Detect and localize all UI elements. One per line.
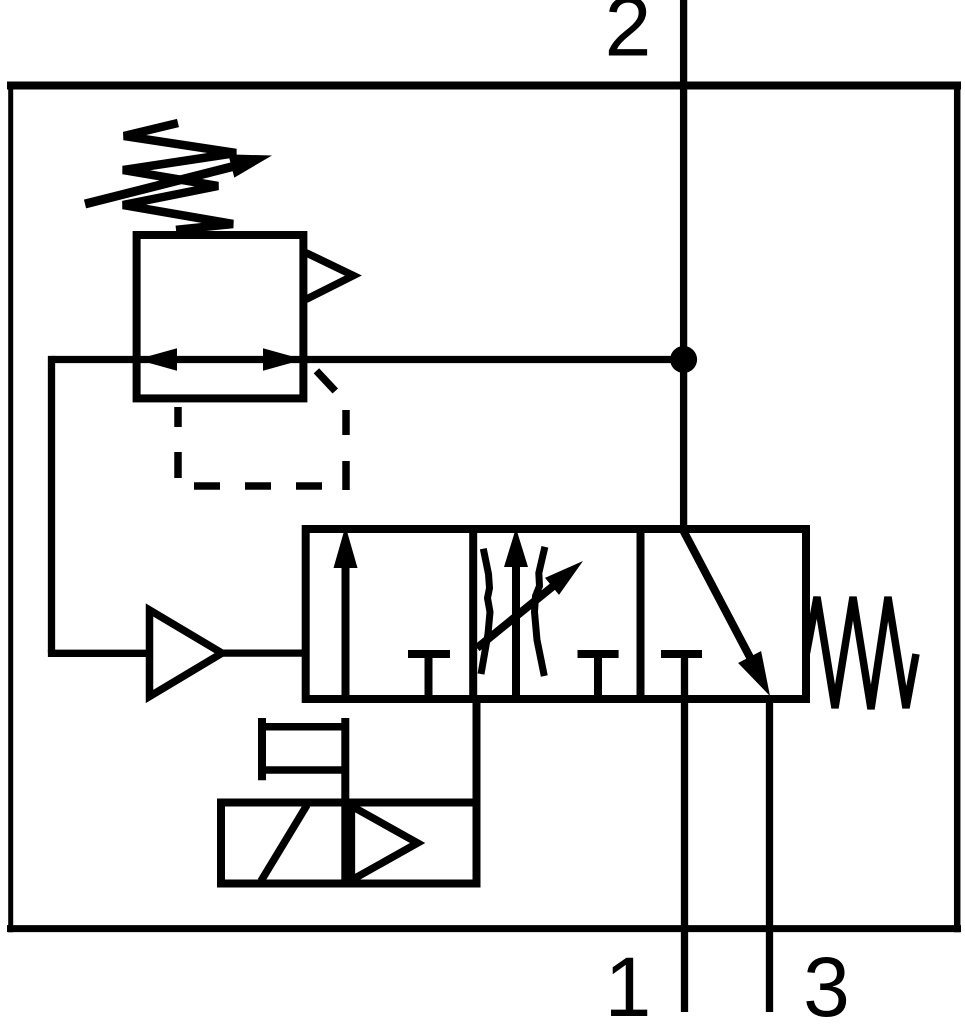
- solenoid diagonal: [261, 805, 307, 881]
- solenoid box: [221, 803, 477, 884]
- regulator right arrowhead: [263, 348, 303, 370]
- wire main horizontal to junction: [52, 356, 684, 363]
- wire port 2 vertical: [680, 0, 687, 529]
- manual override button: [258, 718, 345, 780]
- valve divider 2: [637, 529, 645, 699]
- wire port 3: [766, 695, 773, 1012]
- cell3 blocked port bar: [661, 650, 702, 658]
- regulator pilot dashed line: [178, 371, 346, 490]
- cell2 adjustment arrow: [477, 561, 583, 648]
- svg-text:1: 1: [605, 940, 652, 1024]
- wire amplifier to valve: [222, 649, 306, 656]
- valve body: [306, 529, 806, 699]
- cell2 flow arrow: [504, 528, 528, 699]
- wire pilot down from valve: [473, 695, 481, 884]
- wire port 1: [681, 654, 688, 1012]
- valve divider 1: [469, 529, 477, 699]
- amplifier U1: [150, 610, 223, 697]
- cell1 flow arrow: [334, 526, 358, 699]
- pilot triangle: [351, 806, 417, 880]
- regulator spring: [123, 123, 236, 230]
- regulator left arrowhead: [137, 348, 177, 370]
- cell1 blocked port: [408, 654, 450, 699]
- cell2 throttle arcs: [481, 549, 490, 674]
- wire to amplifier: [48, 650, 150, 657]
- node junction dot: [670, 346, 697, 373]
- regulator relief triangle: [306, 253, 353, 300]
- regulator body: [137, 235, 304, 398]
- pilot divider vertical: [341, 718, 349, 884]
- return spring: [807, 597, 917, 709]
- wire left vertical: [48, 356, 55, 653]
- cell2 blocked port: [578, 654, 619, 695]
- svg-text:2: 2: [605, 0, 652, 74]
- regulator adjustment arrow: [85, 154, 272, 204]
- cell3 flow diagonal: [683, 530, 770, 696]
- svg-text:3: 3: [803, 940, 850, 1024]
